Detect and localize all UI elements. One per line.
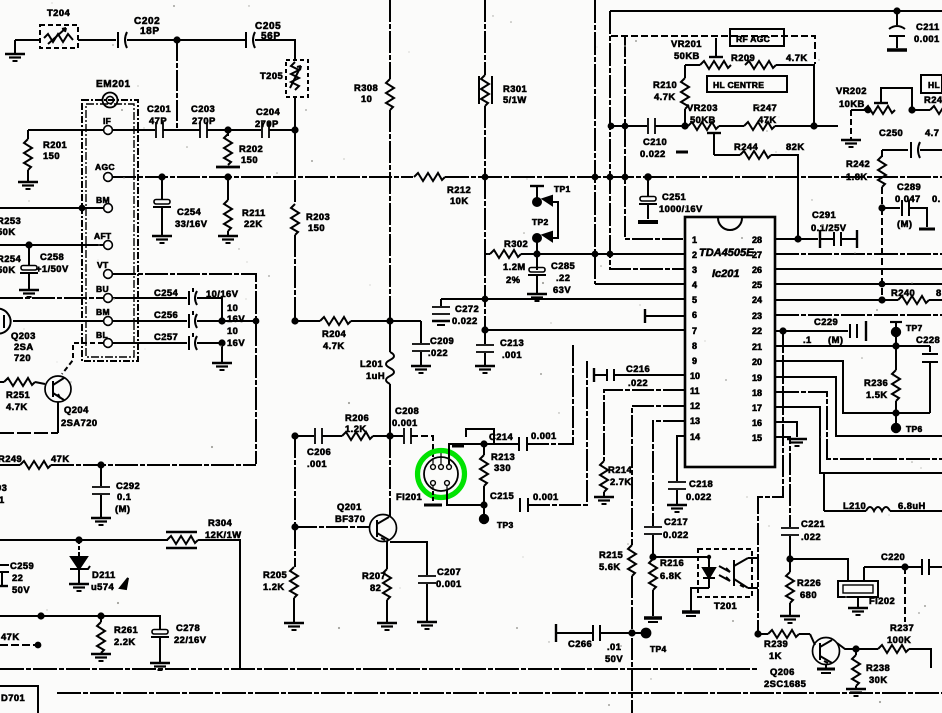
svg-text:C228: C228 <box>916 334 940 345</box>
svg-text:R213: R213 <box>491 451 515 462</box>
capacitor C229 <box>783 321 866 341</box>
resistor R206 <box>342 432 373 440</box>
svg-text:C216: C216 <box>626 363 650 374</box>
svg-text:C204: C204 <box>256 106 281 117</box>
svg-text:100K: 100K <box>887 634 911 645</box>
capacitor C204 <box>262 122 269 138</box>
node junction <box>292 524 297 529</box>
node junction <box>866 108 871 113</box>
svg-text:50KB: 50KB <box>674 50 700 61</box>
resistor R308 <box>386 79 394 110</box>
svg-text:.022: .022 <box>428 347 448 358</box>
label C229 .1 (M) <box>803 316 843 345</box>
wire <box>163 129 200 131</box>
wire (vert from C202 junction) <box>176 40 178 130</box>
label R251 4.7K <box>6 389 30 412</box>
svg-text:HL: HL <box>928 80 940 90</box>
svg-text:5.6K: 5.6K <box>599 561 621 572</box>
wire <box>127 39 245 41</box>
svg-text:8: 8 <box>692 341 697 351</box>
FI201 bottom terminal bar <box>424 491 442 505</box>
svg-text:C211: C211 <box>916 21 940 32</box>
svg-text:BM: BM <box>96 307 110 317</box>
wire (C215 to pin9 riser) <box>528 361 587 505</box>
wire BL row right <box>113 342 187 344</box>
pin BL <box>96 330 112 347</box>
wire pin 19 loop <box>775 377 942 436</box>
ground (C213) <box>475 366 495 373</box>
wire C250 row <box>882 149 908 151</box>
svg-text:R204: R204 <box>322 328 347 339</box>
capacitor C218 <box>668 482 686 504</box>
svg-text:R261: R261 <box>114 624 138 635</box>
inductor L210 <box>824 473 942 511</box>
capacitor C202 <box>118 32 127 48</box>
svg-text:R239: R239 <box>764 638 788 649</box>
svg-text:R238: R238 <box>866 662 890 673</box>
box HL (edge) <box>921 75 942 93</box>
filter FI202 <box>838 567 878 607</box>
label C215 0.001 <box>490 490 559 502</box>
node junction <box>98 613 103 618</box>
label R261 2.2K <box>114 624 138 647</box>
capacitor C209 <box>412 321 430 365</box>
wire <box>0 432 58 434</box>
wire BU row <box>0 297 103 299</box>
connector D701 (corner box) <box>0 686 38 713</box>
node junction (bus x=485) <box>483 175 488 180</box>
label 10 16V (BL row) <box>227 325 245 348</box>
capacitor C289 <box>882 200 935 229</box>
pin VT <box>97 260 112 278</box>
resistor R214 <box>600 461 608 496</box>
node junction <box>36 643 41 648</box>
T201 LED <box>703 555 715 588</box>
node junction <box>780 328 785 333</box>
ground (R207) <box>377 623 397 630</box>
svg-text:1.2K: 1.2K <box>263 581 285 592</box>
svg-text:R216: R216 <box>660 557 684 568</box>
svg-text:TP2: TP2 <box>532 217 549 227</box>
svg-text:0.1: 0.1 <box>117 491 131 502</box>
svg-text:2.2K: 2.2K <box>114 636 136 647</box>
svg-text:22: 22 <box>12 572 23 583</box>
wire BU row right <box>113 297 187 299</box>
svg-text:0.022: 0.022 <box>452 315 478 326</box>
node junction <box>880 282 885 287</box>
svg-text:R226: R226 <box>797 577 821 588</box>
svg-text:VT: VT <box>97 260 109 270</box>
capacitor C207 <box>418 576 436 621</box>
svg-text:10KB: 10KB <box>839 98 865 109</box>
inductor L201 <box>386 321 394 436</box>
node junction <box>893 410 898 415</box>
wire pin 14 (C218) <box>677 436 685 481</box>
pin BU <box>96 284 112 302</box>
label R308 10 <box>354 82 378 104</box>
wire pin 28 row <box>775 238 818 240</box>
main bus wire (right part) <box>445 176 942 178</box>
resistor R205 <box>290 567 298 622</box>
wire T201 emitter <box>748 587 758 589</box>
svg-text:4: 4 <box>692 280 697 290</box>
wire <box>600 632 641 634</box>
svg-text:2: 2 <box>692 250 697 260</box>
svg-text:0.001: 0.001 <box>914 33 940 44</box>
wire x=485 to R302 <box>484 177 486 254</box>
resistor R304 (wirewound 12K/1W) <box>166 532 198 548</box>
transistor Q204 <box>45 376 71 402</box>
ground (C218) <box>667 505 687 512</box>
wire <box>912 109 930 111</box>
vertical line x=295 (R203 column) <box>294 180 296 204</box>
svg-text:16: 16 <box>752 418 762 428</box>
label Q204 2SA720 <box>61 404 98 428</box>
wire (C255 right down to BM row) <box>197 298 222 321</box>
capacitor C266 <box>556 624 600 642</box>
svg-text:6.8uH: 6.8uH <box>898 500 926 511</box>
svg-text:(M): (M) <box>115 503 130 514</box>
transformer T204 <box>40 25 78 48</box>
svg-text:C208: C208 <box>395 405 419 416</box>
svg-text:C258: C258 <box>40 251 64 262</box>
label D211 u574 <box>91 569 128 592</box>
label R209 4.7K <box>731 52 808 63</box>
node junction <box>26 242 31 247</box>
wire BM2 row right <box>113 320 187 322</box>
node junction <box>387 318 392 323</box>
resistor R237 <box>856 645 931 668</box>
svg-text:5: 5 <box>692 295 697 305</box>
ground (R211) <box>218 236 238 243</box>
wire <box>294 97 296 176</box>
svg-text:C203: C203 <box>191 103 215 114</box>
wire pin 18 loop <box>775 392 942 459</box>
wire R249 row <box>0 464 20 466</box>
svg-text:R203: R203 <box>306 211 330 222</box>
label C211 0.001 <box>914 21 940 44</box>
svg-text:18: 18 <box>752 388 762 398</box>
capacitor C256 <box>189 311 197 328</box>
label VR202 10KB <box>836 85 867 109</box>
svg-text:R308: R308 <box>354 82 378 93</box>
wire (C214 to pin8 riser) <box>527 345 573 444</box>
ground (R261) <box>91 654 111 661</box>
label R237 100K <box>887 622 914 645</box>
svg-text:.022: .022 <box>801 531 821 542</box>
wire BM row <box>0 207 103 209</box>
wire x=295 column down <box>294 436 296 527</box>
svg-text:C220: C220 <box>881 551 905 562</box>
wire pin 24 row (R240) <box>775 296 942 304</box>
wire Q206 collector <box>837 643 856 649</box>
svg-text:16V: 16V <box>227 313 245 324</box>
svg-text:R215: R215 <box>599 549 623 560</box>
label R239 1K <box>764 638 788 661</box>
label R238 30K <box>866 662 890 685</box>
ground (VR202) <box>841 110 861 147</box>
svg-text:C256: C256 <box>154 309 178 320</box>
wire pin 12 (R215 column) <box>632 406 685 545</box>
svg-text:R207: R207 <box>362 570 386 581</box>
label C209 .022 <box>428 335 454 358</box>
label C218 0.022 <box>686 478 713 502</box>
svg-text:1.5K: 1.5K <box>866 389 888 400</box>
svg-text:26: 26 <box>752 265 762 275</box>
svg-text:D211: D211 <box>92 569 116 580</box>
capacitor C214 <box>519 437 527 451</box>
capacitor C228 <box>922 346 938 413</box>
svg-text:2SA720: 2SA720 <box>61 417 98 428</box>
resistor R241 <box>930 106 942 114</box>
node junction <box>481 441 486 446</box>
svg-text:R205: R205 <box>263 569 287 580</box>
svg-text:4.7K: 4.7K <box>323 340 345 351</box>
label C289 0.047 (M) <box>895 181 941 229</box>
label R212 10K <box>447 184 471 206</box>
resistor R242 <box>878 150 886 208</box>
transistor Q206 <box>813 638 840 665</box>
resistor R216 <box>649 559 657 616</box>
svg-text:0.022: 0.022 <box>640 148 666 159</box>
node junction <box>879 297 884 302</box>
svg-text:R236: R236 <box>864 377 888 388</box>
test point TP7 <box>890 322 902 346</box>
svg-text:L201: L201 <box>360 358 383 369</box>
node junction <box>254 319 259 324</box>
node junction <box>795 236 800 241</box>
wire pin 22 column down <box>758 331 783 565</box>
svg-text:R214: R214 <box>608 464 633 475</box>
pin AFT <box>94 231 112 249</box>
svg-text:AFT: AFT <box>94 231 112 241</box>
svg-text:Q201: Q201 <box>337 501 362 512</box>
node junction <box>682 123 687 128</box>
svg-text:R244: R244 <box>734 141 759 152</box>
svg-text:C291: C291 <box>812 209 836 220</box>
svg-text:Ic201: Ic201 <box>712 268 740 280</box>
resistor R239 <box>758 630 815 645</box>
long bus wire y=669 <box>0 668 758 670</box>
wire x=295 down to R205 <box>294 527 296 567</box>
svg-text:R251: R251 <box>6 389 30 400</box>
resistor R204 <box>320 317 351 325</box>
capacitor C213 <box>476 330 494 365</box>
capacitor C201 <box>156 122 163 138</box>
box RF AGC <box>730 29 784 46</box>
capacitor C250 <box>911 142 920 158</box>
label VR201 50KB <box>671 38 702 61</box>
resistor R251 <box>0 378 45 386</box>
wire <box>207 129 261 131</box>
wire R304 row <box>0 539 168 541</box>
svg-text:50K: 50K <box>0 226 16 237</box>
svg-text:u574: u574 <box>91 581 115 592</box>
svg-text:C201: C201 <box>147 103 171 114</box>
label R247 47K <box>753 102 777 125</box>
label R213 330 <box>491 451 515 473</box>
node junction <box>174 37 179 42</box>
svg-text:1000/16V: 1000/16V <box>659 203 703 214</box>
svg-text:33/16V: 33/16V <box>175 218 208 229</box>
wire <box>51 464 256 466</box>
wire <box>197 320 256 322</box>
label R210 4.7K <box>653 79 677 102</box>
svg-text:63V: 63V <box>553 284 571 295</box>
tuner module EM201 box <box>82 100 138 361</box>
wire <box>351 320 421 322</box>
resistor R244 <box>714 151 798 240</box>
svg-text:0.001: 0.001 <box>392 417 418 428</box>
label R253 50K <box>0 215 21 237</box>
node junction <box>879 205 884 210</box>
node junction (bus x=595) <box>593 175 598 180</box>
svg-text:0.001: 0.001 <box>436 578 462 589</box>
node junction <box>787 556 792 561</box>
svg-text:1.2K: 1.2K <box>345 423 367 434</box>
svg-text:Q206: Q206 <box>770 666 795 677</box>
resistor R302 <box>485 250 537 258</box>
ground (R216) <box>644 618 662 622</box>
svg-text:R241: R241 <box>924 94 942 105</box>
wire T201 output column <box>757 558 759 634</box>
svg-text:50V: 50V <box>605 653 623 664</box>
resistor R210 <box>681 65 689 126</box>
svg-text:C251: C251 <box>662 191 686 202</box>
svg-text:0.022: 0.022 <box>686 491 712 502</box>
node junction <box>38 613 43 618</box>
label Q203 2SA 720 <box>11 330 36 363</box>
svg-text:.001: .001 <box>307 458 327 469</box>
pin IF <box>103 116 112 134</box>
svg-text:Q203: Q203 <box>11 330 36 341</box>
svg-text:50V: 50V <box>12 584 30 595</box>
resistor R209 <box>745 61 814 126</box>
ground (R214) <box>594 497 614 504</box>
capacitor C206 <box>295 428 342 444</box>
svg-text:R253: R253 <box>0 215 21 226</box>
wire pin 21 row <box>775 345 930 347</box>
svg-text:4.7K: 4.7K <box>6 401 28 412</box>
wire <box>78 39 116 41</box>
label C250 4.7 <box>879 127 939 138</box>
svg-text:R301: R301 <box>503 83 527 94</box>
svg-text:C278: C278 <box>176 622 200 633</box>
svg-text:TP1: TP1 <box>554 184 571 194</box>
resistor R202 <box>224 130 232 165</box>
svg-text:C209: C209 <box>430 335 454 346</box>
svg-text:2.7K: 2.7K <box>610 476 632 487</box>
svg-text:R201: R201 <box>43 139 67 150</box>
pin BM2 <box>96 307 112 325</box>
svg-text:.1: .1 <box>0 494 5 505</box>
T201 phototransistor <box>719 558 748 588</box>
svg-text:C214: C214 <box>489 431 514 442</box>
svg-text:C272: C272 <box>455 303 479 314</box>
wire AFT row <box>0 244 103 246</box>
node junction <box>98 462 103 467</box>
wire Q201 emitter down (R207) <box>386 541 388 569</box>
label C272 0.022 <box>452 303 479 326</box>
capacitor C255 (10/16V) <box>189 288 197 305</box>
wire pin 13 (C217 column) <box>653 421 685 526</box>
svg-text:4.7K: 4.7K <box>786 52 808 63</box>
svg-text:1.8K: 1.8K <box>846 171 868 182</box>
svg-text:10K: 10K <box>450 195 469 206</box>
svg-text:.1: .1 <box>803 334 812 345</box>
capacitor C210 <box>648 118 655 134</box>
pin BM <box>96 195 112 212</box>
ground (R205) <box>284 623 304 630</box>
resistor R212 (in bus) <box>414 173 445 181</box>
capacitor C292 <box>92 465 110 517</box>
capacitor C254 (33/16V electrolytic) <box>153 177 171 235</box>
wire pin 23 row <box>775 314 942 316</box>
wire x=390 collector riser <box>389 436 391 516</box>
svg-text:10: 10 <box>690 371 700 381</box>
IC IC201 TDA4505E body <box>685 217 775 467</box>
svg-text:Q204: Q204 <box>64 404 89 415</box>
node junction <box>534 251 539 256</box>
svg-text:0.047: 0.047 <box>895 193 921 204</box>
pin AGC <box>95 162 115 181</box>
capacitor C220 <box>922 559 942 575</box>
vertical x=625 (inner box edge to pin 1) <box>625 36 685 239</box>
label C258 +1/50V <box>36 251 69 274</box>
svg-text:4.7K: 4.7K <box>654 91 676 102</box>
node junction <box>219 340 224 345</box>
label L201 1UH <box>360 358 385 381</box>
svg-text:16V: 16V <box>227 337 245 348</box>
wire <box>198 540 240 668</box>
pin 16 ground <box>775 422 807 446</box>
svg-text:0.022: 0.022 <box>663 529 689 540</box>
green marker circle <box>418 451 465 498</box>
ground (antenna input) <box>5 40 25 61</box>
svg-text:C207: C207 <box>437 566 461 577</box>
node junction <box>902 564 907 569</box>
label C206 .001 <box>307 446 331 469</box>
ground (R238) <box>846 689 866 696</box>
resistor R261 <box>97 616 105 653</box>
label R242 1.8K <box>846 158 870 182</box>
resistor R249 <box>20 461 51 469</box>
label R249 47K <box>0 453 70 464</box>
svg-text:.22: .22 <box>556 272 570 283</box>
label Q201 BF370 <box>335 501 365 524</box>
optocoupler T201 box <box>698 549 752 597</box>
resistor R203 <box>291 204 299 235</box>
svg-text:680: 680 <box>800 589 817 600</box>
svg-text:82K: 82K <box>786 141 805 152</box>
capacitor C272 <box>432 299 450 325</box>
node junction <box>76 537 81 542</box>
svg-text:19: 19 <box>752 373 762 383</box>
node junction <box>608 252 613 257</box>
node junction <box>80 206 85 211</box>
label C293 fragment <box>0 482 7 517</box>
svg-text:13: 13 <box>690 416 700 426</box>
wire pin 27 row <box>775 253 942 255</box>
resistor R215 <box>628 545 636 576</box>
label C291 0.1/25V <box>811 209 847 233</box>
long bus wire y=693 <box>57 692 942 694</box>
node junction <box>853 646 858 651</box>
wire row y=126 <box>611 125 647 127</box>
svg-text:C292: C292 <box>116 480 140 491</box>
label R201 150 <box>43 139 67 161</box>
svg-text:R254: R254 <box>0 253 22 264</box>
